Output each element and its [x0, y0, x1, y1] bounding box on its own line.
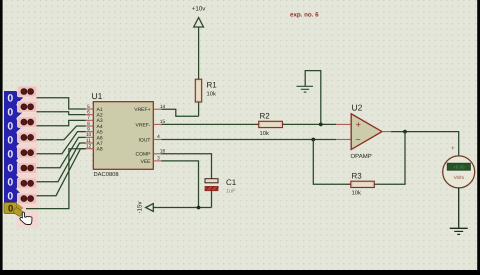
- junction node + input/ground: [319, 123, 323, 127]
- capacitor C1 top plate: [205, 179, 218, 183]
- logic state toggle button row 7: [18, 178, 37, 189]
- svg-text:+0.00: +0.00: [453, 164, 465, 169]
- U1 pin 5 (A1) stub: [86, 108, 94, 110]
- wire R2 to opamp + input: [283, 123, 337, 125]
- resistor R2 body: [259, 121, 283, 127]
- opamp + input pin stub: [336, 123, 351, 125]
- svg-text:+10v: +10v: [192, 6, 206, 13]
- svg-text:+: +: [356, 120, 361, 130]
- svg-text:10k: 10k: [352, 190, 361, 197]
- junction node - input/feedback: [311, 138, 315, 142]
- wire LS9 vertical riser: [26, 149, 86, 209]
- voltmeter display: [447, 163, 470, 170]
- logic state LS9 selected (olive): [4, 203, 17, 214]
- svg-text:COMP: COMP: [136, 152, 152, 158]
- wire U1 pin16 (COMP) to C1: [161, 154, 211, 179]
- U1 pin 4 (IOUT) stub: [153, 139, 161, 141]
- left black bar: [0, 0, 3, 270]
- svg-text:10: 10: [86, 132, 92, 138]
- svg-text:U2: U2: [352, 103, 363, 113]
- svg-text:3: 3: [157, 156, 160, 162]
- wire LS3 to U1 pin 7: [37, 120, 86, 125]
- capacitor C1 bottom plate: [205, 186, 218, 190]
- wire -15v rail: [153, 207, 211, 209]
- U1 pin 8 (A4) stub: [86, 125, 94, 127]
- logic state arrow row 3: [16, 119, 23, 133]
- svg-text:U1: U1: [92, 91, 103, 101]
- U1 DAC0808 chip body: [93, 102, 153, 170]
- wire U1 pin3 (VEE) down to -15v rail: [161, 161, 198, 208]
- U1 pin 12 (A8) stub: [86, 148, 94, 150]
- svg-text:8: 8: [87, 121, 90, 127]
- U1 pin 14 (VREF+) stub: [153, 108, 161, 110]
- svg-text:0: 0: [7, 190, 13, 202]
- svg-text:R1: R1: [207, 81, 218, 90]
- svg-text:0: 0: [7, 134, 13, 146]
- wire R3 to output node: [374, 132, 405, 185]
- wire U1 pin14 to R1: [161, 109, 198, 116]
- wire LS1 to U1 pin 5: [37, 98, 86, 109]
- U1 pin 15 (VREF-) stub: [153, 123, 161, 125]
- svg-text:0: 0: [7, 176, 13, 188]
- U1 pin 10 (A6) stub: [86, 136, 94, 138]
- opamp - input pin stub: [336, 139, 351, 141]
- svg-text:0: 0: [7, 120, 13, 132]
- svg-text:0: 0: [7, 106, 13, 118]
- svg-text:1uF: 1uF: [226, 189, 236, 195]
- U1 pin 6 (A2) stub: [86, 114, 94, 116]
- svg-text:IOUT: IOUT: [139, 137, 151, 143]
- logic state arrow row 4: [16, 133, 23, 147]
- U1 pin 3 (VEE) stub: [153, 160, 161, 162]
- svg-text:6: 6: [87, 109, 90, 115]
- logic state arrow row 5: [16, 147, 23, 161]
- svg-text:OPAMP: OPAMP: [351, 153, 372, 160]
- wire LS4 to U1 pin 8: [37, 126, 86, 140]
- svg-text:DAC0808: DAC0808: [94, 171, 119, 178]
- svg-text:5: 5: [87, 104, 90, 110]
- svg-text:10k: 10k: [260, 130, 269, 137]
- logic state toggle button row 2: [18, 101, 37, 112]
- svg-text:0: 0: [8, 203, 13, 214]
- logic state button halo column: [17, 85, 39, 228]
- logic state arrow row 2: [16, 105, 23, 119]
- logic state toggle button row 6: [18, 163, 37, 174]
- svg-text:7: 7: [87, 115, 90, 121]
- U1 pin 11 (A7) stub: [86, 142, 94, 144]
- opamp output pin stub: [382, 131, 391, 133]
- logic state toggle button row 3: [18, 117, 37, 128]
- svg-text:11: 11: [86, 138, 91, 144]
- junction node VEE/-15v: [197, 206, 201, 210]
- wire opamp output to voltmeter: [391, 132, 459, 157]
- logic state toggle button row 5: [18, 147, 37, 158]
- logic state toggle button row 4: [18, 132, 37, 143]
- svg-text:4: 4: [157, 134, 160, 140]
- svg-text:+: +: [451, 145, 455, 152]
- ground symbol (top): [297, 85, 314, 87]
- wire C1 bottom to -15v rail: [211, 191, 213, 208]
- logic state arrow row 1: [16, 91, 23, 105]
- right black bar: [477, 0, 480, 270]
- svg-text:10k: 10k: [207, 91, 216, 98]
- svg-text:12: 12: [86, 143, 92, 149]
- svg-text:R2: R2: [260, 112, 271, 121]
- svg-text:VREF+: VREF+: [134, 107, 150, 113]
- wire LS5 to U1 pin 9: [37, 132, 86, 154]
- svg-text:9: 9: [87, 126, 90, 132]
- resistor R3 body: [351, 181, 375, 187]
- svg-text:VEE: VEE: [140, 159, 151, 165]
- op-amp U2 body: [351, 114, 382, 150]
- svg-text:0: 0: [7, 162, 13, 174]
- U1 pin 9 (A5) stub: [86, 131, 94, 133]
- hand cursor over LS9: [20, 212, 32, 224]
- svg-text:C1: C1: [226, 178, 237, 187]
- svg-text:−: −: [355, 135, 360, 145]
- logic state arrow row 7: [16, 175, 23, 189]
- wire +10v to R1: [198, 27, 200, 79]
- svg-text:A8: A8: [97, 147, 103, 153]
- U1 pin 7 (A3) stub: [86, 119, 94, 121]
- svg-text:-15v: -15v: [137, 201, 144, 214]
- svg-text:Volts: Volts: [454, 175, 465, 181]
- logic state toggle button row 8: [18, 193, 37, 204]
- wire R1 bottom: [198, 102, 200, 116]
- svg-text:0: 0: [7, 148, 13, 160]
- -15v power arrow: [146, 204, 154, 212]
- wire LS7 to U1 pin 11: [37, 143, 86, 182]
- voltmeter body: [443, 156, 475, 188]
- wire U1 pin4 (IOUT) to opamp - input: [161, 139, 336, 141]
- logic state toggle button row 1: [18, 86, 37, 97]
- logic state arrow row 6: [16, 161, 23, 175]
- svg-text:R3: R3: [352, 172, 363, 181]
- wire + input to ground: [305, 71, 321, 125]
- +10v power arrow: [194, 18, 204, 28]
- U1 pin 16 (COMP) stub: [153, 153, 161, 155]
- svg-text:VREF-: VREF-: [136, 122, 151, 128]
- wire LS2 to U1 pin 6: [37, 112, 86, 115]
- wire U1 pin15 to R2: [161, 123, 258, 125]
- ground symbol (bottom right): [450, 227, 468, 229]
- junction node output/feedback: [403, 130, 407, 134]
- wire - input down to R3: [313, 140, 351, 185]
- resistor R1 body: [195, 79, 201, 102]
- logic state arrow row 8: [16, 189, 23, 203]
- svg-text:0: 0: [7, 92, 13, 104]
- wire LS8 to U1 pin 12: [37, 149, 86, 196]
- logic state blue column body: [4, 91, 17, 203]
- wire LS6 to U1 pin 10: [37, 137, 86, 167]
- wire voltmeter to ground: [458, 188, 460, 229]
- svg-text:exp. no. 6: exp. no. 6: [290, 12, 319, 19]
